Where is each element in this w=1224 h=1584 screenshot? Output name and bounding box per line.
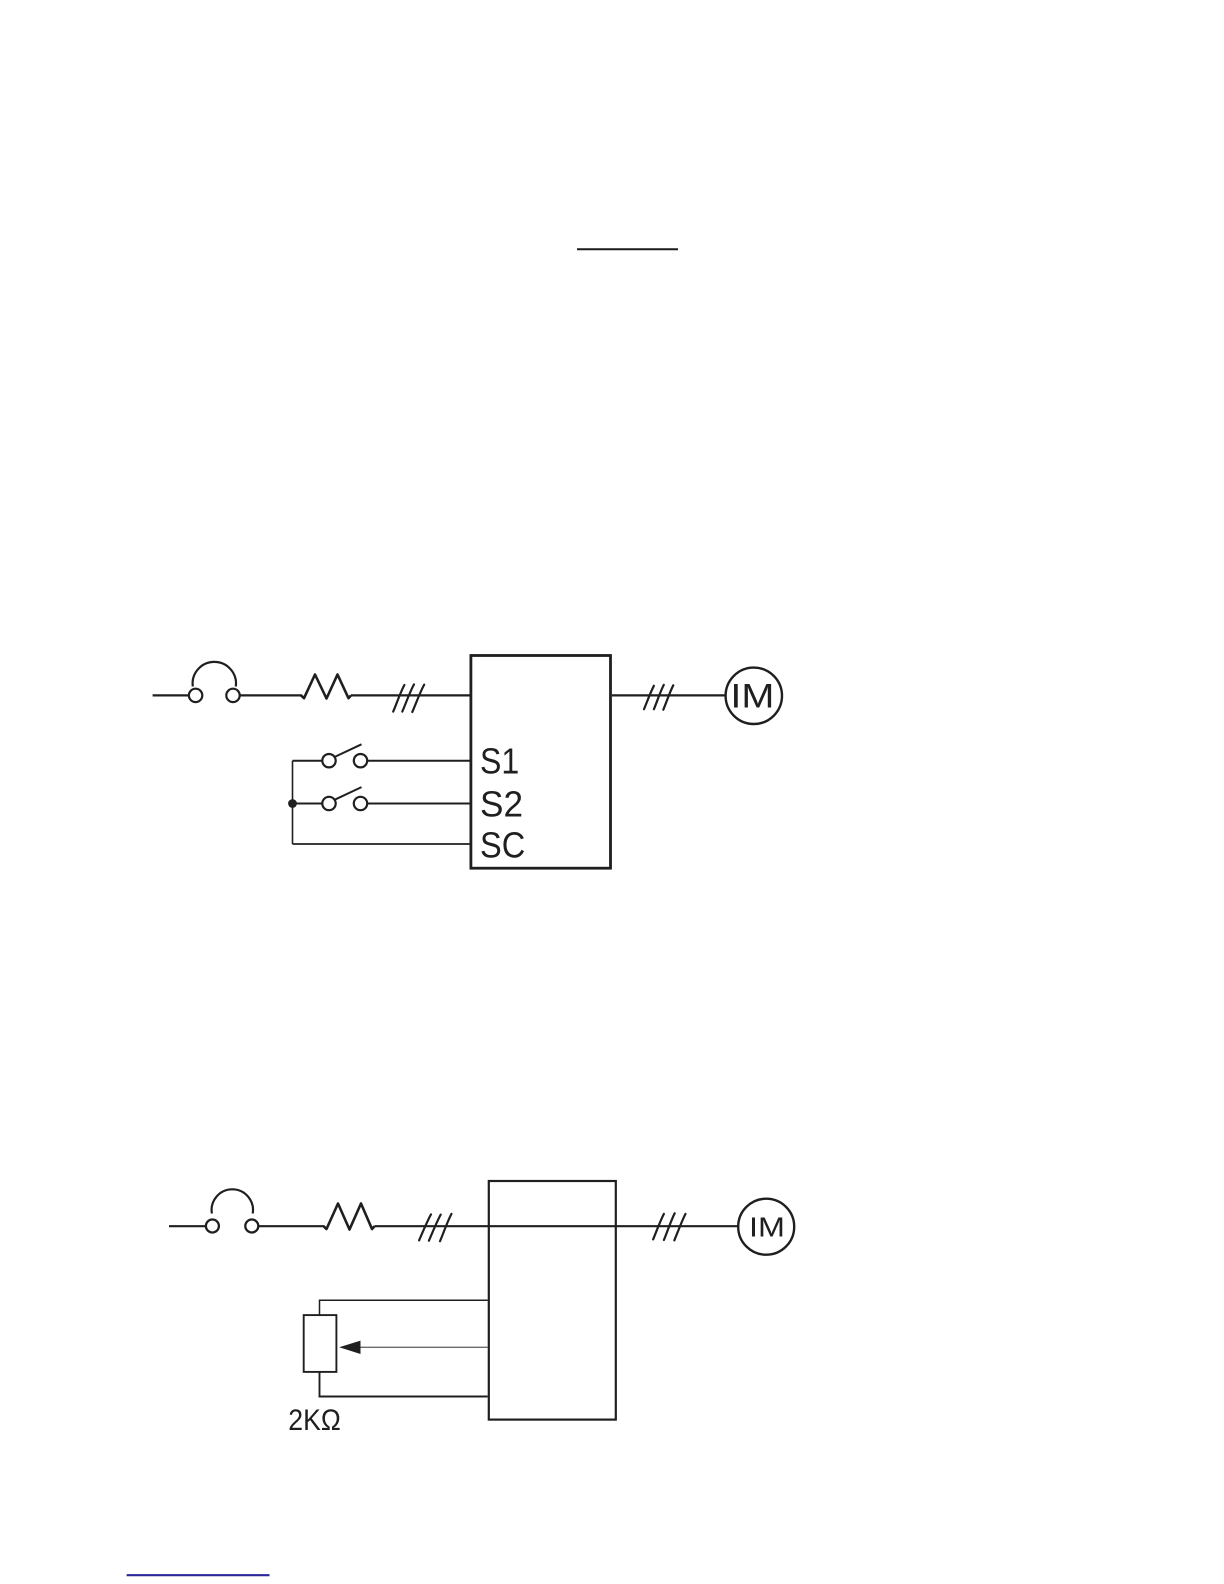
wire: potentiometer top lead (320, 1300, 488, 1315)
three-phase slash marks output side (diagram 1) (644, 685, 673, 710)
motor circle IM (diagram 2) (738, 1199, 794, 1255)
svg-text:S2: S2 (480, 784, 523, 825)
circuit breaker contact circle left (diagram 1) (189, 689, 202, 702)
wire: switch S2 to inverter (367, 803, 470, 805)
top horizontal rule (577, 248, 678, 250)
wire: bus to SC terminal (293, 843, 471, 845)
circuit breaker contact circle left (diagram 2) (206, 1220, 219, 1233)
wire: diagram1 source lead (153, 694, 189, 696)
resistor (diagram 2 line reactor) (324, 1204, 375, 1230)
wire: bus to switch S1 (293, 760, 323, 762)
wire: switch S1 to inverter (367, 760, 470, 762)
svg-text:2KΩ: 2KΩ (288, 1404, 341, 1437)
three-phase slash marks input side (diagram 1) (393, 684, 424, 712)
wire: potentiometer bottom lead (320, 1372, 488, 1397)
circuit breaker contact circle right (diagram 1) (226, 689, 239, 702)
potentiometer body 2K ohm (304, 1315, 337, 1372)
wire: left vertical bus of switches (292, 761, 294, 844)
wire: bus to switch S2 (293, 803, 323, 805)
bottom blue rule (127, 1574, 270, 1576)
wiper wire (360, 1346, 488, 1348)
svg-text:SC: SC (480, 825, 525, 866)
circuit breaker arc (diagram 2) (212, 1189, 253, 1213)
wire: resistor to inverter box (diagram 1) (351, 694, 470, 696)
three-phase slash marks input side (diagram 2) (419, 1214, 451, 1241)
wire: diagram2 source lead (169, 1225, 206, 1227)
three-phase slash marks output side (diagram 2) (653, 1213, 685, 1240)
svg-text:IM: IM (730, 678, 774, 716)
wiper arrowhead (339, 1341, 360, 1354)
inverter box (diagram 2) (489, 1181, 616, 1420)
switch S2 contact circle left (322, 797, 335, 810)
inverter box (diagram 1) (471, 656, 611, 869)
circuit breaker contact circle right (diagram 2) (245, 1220, 258, 1233)
switch S1 contact circle right (354, 754, 367, 767)
switch S2 contact circle right (354, 797, 367, 810)
switch S2 arm (335, 787, 362, 800)
svg-text:S1: S1 (480, 741, 519, 782)
svg-text:IM: IM (749, 1212, 785, 1243)
junction node dot (288, 799, 297, 808)
wire: breaker to resistor (diagram 2) (258, 1225, 324, 1227)
switch S1 contact circle left (322, 754, 335, 767)
switch S1 arm (335, 744, 362, 757)
circuit breaker arc (diagram 1) (193, 662, 236, 687)
wire: breaker to resistor (diagram 1) (240, 694, 302, 696)
wire: inverter to motor (diagram 1) (612, 694, 726, 696)
resistor (diagram 1 line reactor) (301, 675, 351, 699)
wire: resistor through inverter to motor (diagram 2) (375, 1225, 739, 1227)
motor circle IM (diagram 1) (726, 668, 782, 724)
